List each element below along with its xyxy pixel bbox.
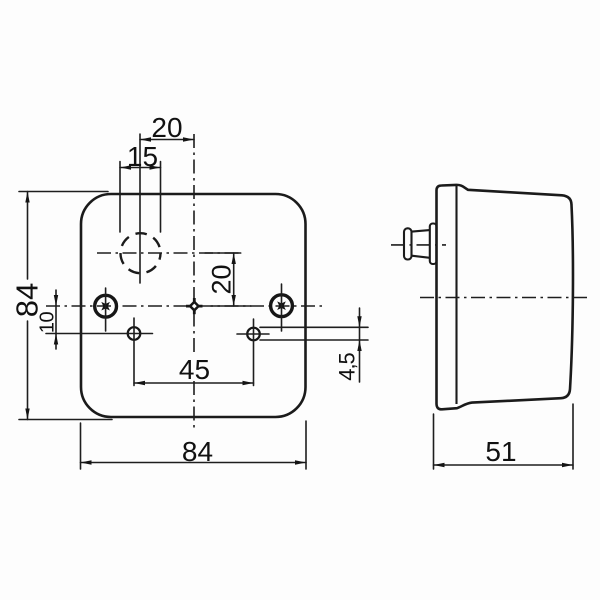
dimension 10 (centerline to hole line) — [37, 290, 59, 349]
svg-text:45: 45 — [179, 354, 210, 385]
dimension 51 (depth) — [434, 404, 574, 469]
plug centerline — [391, 244, 446, 246]
dimension 84 vertical (height) — [10, 192, 113, 420]
connector plug barrel — [411, 230, 430, 258]
main vertical centerline — [193, 134, 195, 432]
main horizontal centerline — [46, 305, 322, 307]
extension line at circle centre height — [205, 252, 241, 254]
right hole top tangent extension — [260, 326, 368, 328]
dimension 84 horizontal (width) — [81, 421, 307, 469]
left screw vertical centerline — [105, 288, 107, 331]
svg-text:84: 84 — [10, 283, 45, 317]
svg-text:4,5: 4,5 — [335, 352, 360, 380]
dimension 20 (top, circle center to midline) — [140, 112, 194, 143]
svg-text:51: 51 — [485, 436, 516, 467]
side view housing outline — [437, 185, 573, 409]
svg-text:20: 20 — [207, 264, 237, 294]
left screw head — [95, 295, 117, 317]
right screw head — [271, 295, 293, 317]
right hole horizontal line — [237, 333, 269, 335]
dimension 45 (hole spacing) — [134, 354, 254, 385]
dimension 15 (circle diameter) — [120, 141, 161, 232]
svg-text:84: 84 — [182, 436, 213, 467]
circle vertical extension line — [139, 134, 141, 283]
right hole vertical extension — [253, 319, 255, 386]
front view housing outline — [81, 194, 306, 417]
left small hole d4.5 — [128, 327, 141, 340]
dimension 20 (vertical, circle to centerline) — [207, 253, 237, 306]
dimension 4,5 (hole diameter) — [335, 308, 362, 382]
right small hole d4.5 — [247, 328, 260, 341]
right screw vertical centerline — [281, 284, 283, 331]
svg-text:15: 15 — [127, 141, 158, 172]
left hole vertical extension — [133, 318, 135, 386]
side view horizontal centerline — [420, 297, 588, 299]
dashed circle (lamp opening d15) — [121, 233, 161, 273]
centre marker diamond — [186, 298, 203, 314]
connector plug tip — [404, 228, 412, 259]
side view flange step line — [455, 185, 457, 404]
svg-text:20: 20 — [151, 112, 182, 143]
right hole bottom tangent extension — [260, 339, 368, 341]
left hole horizontal line — [46, 333, 153, 335]
solid centreline segment at centre marker — [211, 305, 251, 307]
connector plug flange — [430, 224, 437, 265]
circle horizontal centerline — [97, 252, 241, 254]
